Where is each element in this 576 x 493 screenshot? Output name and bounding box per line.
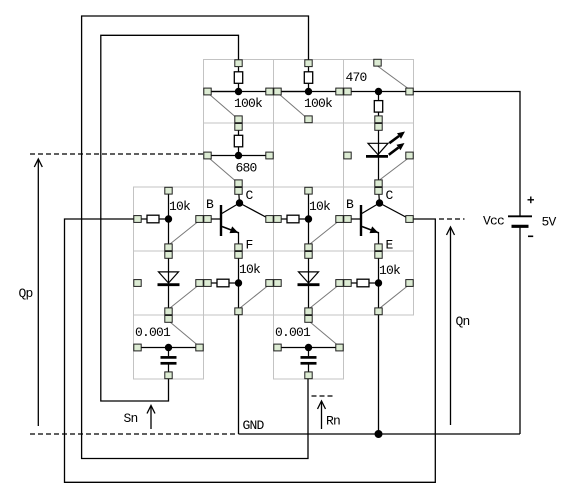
- diode D2: [274, 251, 343, 322]
- node Qp label: [19, 286, 33, 301]
- wire Rn coupling loop (R2 top to C2 bottom): [82, 16, 309, 459]
- node Sn label: [124, 411, 138, 426]
- svg-text:10k: 10k: [379, 263, 401, 278]
- svg-text:B: B: [206, 197, 214, 212]
- svg-text:0.001: 0.001: [135, 325, 171, 340]
- node Rn label: [326, 414, 340, 429]
- transistor Q2: [344, 188, 413, 253]
- svg-text:100k: 100k: [304, 96, 333, 111]
- node Qn dashed stub: [439, 218, 465, 220]
- svg-text:100k: 100k: [234, 96, 263, 111]
- svg-text:Qp: Qp: [19, 286, 33, 301]
- svg-text:C: C: [386, 188, 394, 203]
- svg-text:470: 470: [346, 70, 367, 85]
- svg-text:10k: 10k: [309, 199, 331, 214]
- battery label 5V: [542, 215, 557, 230]
- resistor R5 10k (Q1 emitter): [204, 251, 273, 315]
- resistor R6 10k (Q2 base): [274, 187, 343, 258]
- svg-text:B: B: [346, 197, 354, 212]
- svg-text:Vcc: Vcc: [483, 214, 504, 229]
- svg-text:5V: 5V: [542, 215, 557, 230]
- resistor R7 10k (Q1 base): [134, 187, 203, 258]
- node Qp arrow: [34, 159, 42, 426]
- svg-text:10k: 10k: [169, 199, 191, 214]
- node Qp dashed line: [30, 153, 204, 155]
- resistor R3 470: [344, 59, 413, 123]
- node GND dashed line: [30, 433, 238, 435]
- node Sn arrow: [147, 406, 155, 430]
- capacitor C1 0.001: [134, 316, 203, 379]
- node Rn arrow: [318, 401, 326, 429]
- wire Sn coupling loop (R1 top to C1 bottom): [101, 35, 239, 401]
- component grid cells: [134, 60, 414, 380]
- wire cross-coupling loop (R7 left to Q2 collector): [65, 219, 436, 482]
- node GND label: [243, 418, 265, 433]
- wire battery negative to GND rail: [519, 227, 521, 434]
- wire GND rail horizontal: [239, 433, 521, 435]
- LED LED1: [344, 123, 413, 187]
- svg-text:C: C: [246, 188, 254, 203]
- wire Q2 emitter/10k R8 to GND rail: [378, 312, 380, 435]
- resistor R2 100k: [274, 60, 343, 123]
- svg-text:F: F: [246, 238, 253, 253]
- svg-text:E: E: [386, 238, 394, 253]
- node Qn label: [456, 314, 470, 329]
- svg-text:10k: 10k: [239, 262, 261, 277]
- svg-text:GND: GND: [243, 418, 265, 433]
- svg-text:Rn: Rn: [326, 414, 340, 429]
- node Rn dashed stub: [312, 395, 336, 397]
- node junction at GND rail: [375, 430, 383, 438]
- svg-text:Qn: Qn: [456, 314, 470, 329]
- battery label Vcc: [483, 214, 504, 229]
- resistor R4 680: [204, 123, 273, 187]
- capacitor C2 0.001: [274, 316, 343, 379]
- wire Vcc rail (y=91.5) to battery: [208, 92, 521, 216]
- resistor R1 100k: [204, 60, 273, 123]
- svg-text:0.001: 0.001: [275, 325, 311, 340]
- resistor R8 10k (Q2 emitter): [344, 251, 413, 315]
- node Qn arrow: [447, 227, 455, 425]
- svg-text:Sn: Sn: [124, 411, 138, 426]
- wire GND vertical from 10k R5: [238, 312, 240, 435]
- battery V1 Vcc 5V: [508, 197, 534, 237]
- diode D1: [134, 251, 203, 322]
- svg-text:680: 680: [236, 161, 257, 176]
- transistor Q1: [204, 188, 273, 253]
